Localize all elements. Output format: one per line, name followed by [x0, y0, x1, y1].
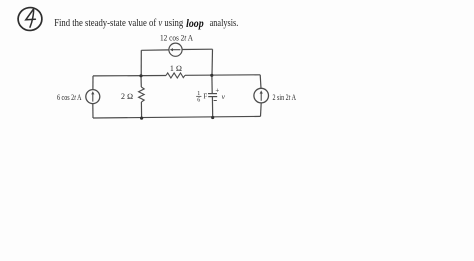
label - polarity — [214, 100, 217, 102]
wire: middle rail right segment — [185, 74, 260, 77]
wire: left rail upper — [92, 76, 94, 90]
node A top junction — [139, 74, 142, 77]
wire: middle rail left segment — [93, 75, 166, 77]
wire: node A vertical upper — [140, 76, 142, 87]
wire: node B vertical upper (to capacitor) — [211, 75, 213, 93]
node A bottom junction — [140, 117, 143, 120]
wire: top horizontal right segment — [182, 48, 212, 50]
wire: top loop right vertical (down to node B) — [211, 49, 214, 75]
svg-text:loop: loop — [186, 18, 204, 30]
node B bottom junction — [211, 116, 214, 119]
wire: right rail lower — [260, 103, 263, 117]
svg-text:1 Ω: 1 Ω — [170, 64, 182, 73]
wire: node A vertical lower — [140, 102, 142, 118]
current source I top 12cos2t A — [169, 43, 182, 56]
current source I left 6cos2t A — [86, 90, 100, 104]
svg-text:2 Ω: 2 Ω — [121, 92, 133, 101]
current source I right 2sin2t A — [254, 88, 269, 103]
svg-text:2 sin 2t A: 2 sin 2t A — [273, 93, 297, 102]
wire: node B vertical lower — [211, 97, 213, 118]
svg-text:F: F — [203, 93, 207, 100]
resistor R 2 ohm (vertical zigzag) — [139, 87, 145, 102]
svg-text:+: + — [215, 86, 219, 94]
resistor R 1 ohm (horizontal zigzag) — [166, 73, 185, 78]
wire: top horizontal left segment — [141, 49, 169, 51]
problem number circle 4 — [17, 6, 44, 32]
problem statement text — [54, 18, 238, 29]
wire: left rail lower — [92, 104, 94, 118]
wire: top loop left vertical (node A up) — [140, 50, 142, 76]
wire: right rail upper — [259, 75, 262, 89]
wire: bottom rail — [93, 116, 261, 118]
node B top junction — [210, 74, 213, 77]
svg-text:Find the steady-state value of: Find the steady-state value of v using — [54, 18, 184, 29]
svg-text:analysis.: analysis. — [210, 18, 239, 29]
svg-text:6 cos 2t A: 6 cos 2t A — [57, 93, 82, 102]
capacitor C 1/6 F — [208, 94, 217, 97]
label 1/6 F — [196, 91, 207, 104]
svg-text:6: 6 — [197, 98, 200, 104]
svg-text:12 cos 2t A: 12 cos 2t A — [160, 33, 193, 42]
